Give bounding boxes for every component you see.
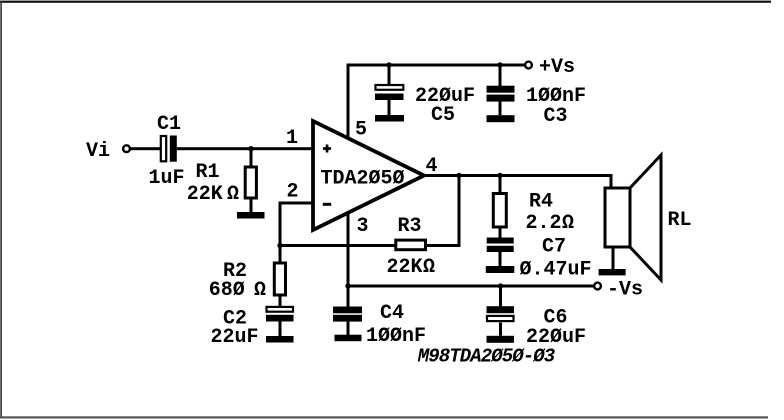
- svg-text:22uF: 22uF: [210, 326, 258, 349]
- wire R1 top lead: [250, 150, 253, 168]
- svg-text:1: 1: [286, 127, 298, 150]
- border frame bottom: [0, 416, 768, 418]
- label R1: [195, 161, 219, 184]
- svg-text:68Ø: 68Ø: [209, 279, 245, 302]
- terminal +Vs: [525, 62, 532, 69]
- ground below C7: [486, 266, 515, 273]
- node junction C6 rail: [498, 283, 503, 288]
- capacitor C7: [487, 238, 514, 267]
- svg-text:Ω: Ω: [562, 212, 574, 235]
- svg-text:M98TDA2Ø5Ø-Ø3: M98TDA2Ø5Ø-Ø3: [417, 346, 556, 368]
- svg-text:C5: C5: [431, 104, 455, 127]
- node junction R1: [248, 146, 253, 151]
- resistor R3: [396, 240, 426, 250]
- label +Vs: [539, 56, 575, 79]
- op-amp U1 TDA2050: [313, 121, 424, 230]
- svg-text:2: 2: [286, 181, 298, 204]
- op-amp minus input mark: [323, 203, 331, 206]
- svg-text:Ω: Ω: [227, 183, 239, 206]
- wire R3 right lead: [427, 244, 461, 247]
- op-amp plus input mark: [323, 145, 331, 153]
- svg-text:R4: R4: [529, 191, 553, 214]
- node junction pin3 C4 rail: [345, 283, 350, 288]
- node junction feedback output: [456, 173, 461, 178]
- node junction C5: [386, 62, 391, 67]
- svg-text:1uF: 1uF: [148, 167, 184, 190]
- capacitor C2: [266, 307, 294, 336]
- node junction C3: [497, 62, 502, 67]
- svg-text:C1: C1: [157, 113, 181, 136]
- resistor R1: [245, 167, 256, 198]
- value label 0.47uF: [519, 259, 591, 282]
- ground below R1: [237, 212, 265, 219]
- wire C1 to pin 1: [177, 147, 315, 150]
- value label 100nF C4: [366, 325, 426, 348]
- terminal -Vs: [594, 283, 601, 290]
- capacitor C6: [487, 306, 515, 336]
- wire output pin4 to speaker: [422, 174, 613, 177]
- wire -Vs rail: [347, 285, 594, 288]
- label RL: [667, 209, 691, 232]
- pin number 4: [425, 155, 437, 178]
- wire R2 bottom lead: [279, 295, 282, 307]
- svg-text:C3: C3: [543, 105, 567, 128]
- wire pin 3 dropper: [347, 208, 350, 286]
- svg-text:TDA2Ø5Ø: TDA2Ø5Ø: [320, 168, 404, 191]
- resistor R4: [493, 194, 506, 228]
- value label 680Ohm: [209, 279, 266, 302]
- wire Vi to C1: [130, 147, 162, 150]
- wire C3 top lead: [499, 66, 502, 86]
- label -Vs: [607, 279, 643, 302]
- wire C5 top lead: [388, 66, 391, 85]
- svg-text:RL: RL: [667, 209, 691, 232]
- capacitor C4: [333, 307, 362, 336]
- wire C4 top lead: [347, 287, 350, 307]
- svg-text:R3: R3: [397, 215, 421, 238]
- value label 22KOhm R3: [387, 256, 436, 279]
- wire pin 5 riser: [347, 64, 350, 140]
- svg-text:R1: R1: [195, 161, 219, 184]
- wire pin 2 stub: [279, 202, 316, 248]
- pin number 2: [286, 181, 298, 204]
- capacitor C5: [375, 85, 404, 115]
- pin number 3: [356, 215, 368, 238]
- border frame top: [0, 1, 771, 3]
- label TDA2050: [320, 168, 404, 191]
- wire R2 top lead: [279, 247, 282, 264]
- label R2: [223, 260, 247, 283]
- ground below speaker: [599, 269, 626, 275]
- ground below C3: [487, 115, 515, 122]
- wire R1 bottom lead: [250, 198, 253, 213]
- resistor R2: [274, 263, 285, 295]
- border frame left: [0, 1, 2, 418]
- capacitor C1: [161, 136, 177, 162]
- svg-text:22K: 22K: [187, 183, 223, 206]
- pin number 1: [286, 127, 298, 150]
- label C5: [431, 104, 455, 127]
- pin number 5: [355, 118, 367, 141]
- wire feedback left segment: [280, 244, 395, 247]
- value label 220uF C6: [526, 326, 586, 349]
- label C2: [223, 308, 247, 331]
- label C7: [542, 236, 566, 259]
- label C4: [380, 302, 404, 325]
- label C6: [543, 307, 567, 330]
- svg-text:C7: C7: [542, 236, 566, 259]
- svg-text:Vi: Vi: [86, 140, 110, 163]
- node junction pin2 R2 feedback: [277, 243, 282, 248]
- value label C1: [157, 113, 181, 136]
- svg-text:5: 5: [355, 118, 367, 141]
- ground below C6: [487, 336, 515, 343]
- ground below C4: [335, 335, 362, 342]
- label R4: [529, 191, 553, 214]
- svg-text:C4: C4: [380, 302, 404, 325]
- wire speaker drop: [610, 174, 613, 189]
- svg-text:Ω: Ω: [254, 279, 266, 302]
- node Vi label: [86, 140, 110, 163]
- svg-text:Ω: Ω: [423, 256, 435, 279]
- label C3: [543, 105, 567, 128]
- wire R4 bottom lead: [499, 227, 502, 238]
- wire top rail to +Vs: [347, 64, 525, 67]
- wire C6 top lead: [499, 287, 502, 307]
- svg-text:-Vs: -Vs: [607, 279, 643, 302]
- svg-text:22K: 22K: [387, 256, 423, 279]
- speaker RL cone: [630, 155, 661, 280]
- svg-text:Ø.47uF: Ø.47uF: [519, 259, 591, 282]
- value label 100nF: [526, 85, 586, 108]
- wire speaker bottom lead: [612, 247, 615, 269]
- title M98TDA2050-03: [417, 346, 556, 368]
- value label 22KOhm: [187, 183, 239, 206]
- label R3: [397, 215, 421, 238]
- value label 220uF: [415, 85, 475, 108]
- svg-text:2.2: 2.2: [526, 212, 562, 235]
- svg-text:+Vs: +Vs: [539, 56, 575, 79]
- value label 22uF: [210, 326, 258, 349]
- speaker RL body: [605, 188, 630, 247]
- svg-text:3: 3: [356, 215, 368, 238]
- node junction R4 output: [497, 173, 502, 178]
- value label 1uF: [148, 167, 184, 190]
- terminal Vi: [123, 145, 130, 152]
- wire feedback riser: [458, 175, 461, 247]
- ground below C2: [266, 336, 294, 343]
- capacitor C3: [487, 86, 515, 116]
- ground below C5: [375, 115, 404, 122]
- value label 2.2Ohm: [526, 212, 575, 235]
- wire R4 top lead: [499, 177, 502, 194]
